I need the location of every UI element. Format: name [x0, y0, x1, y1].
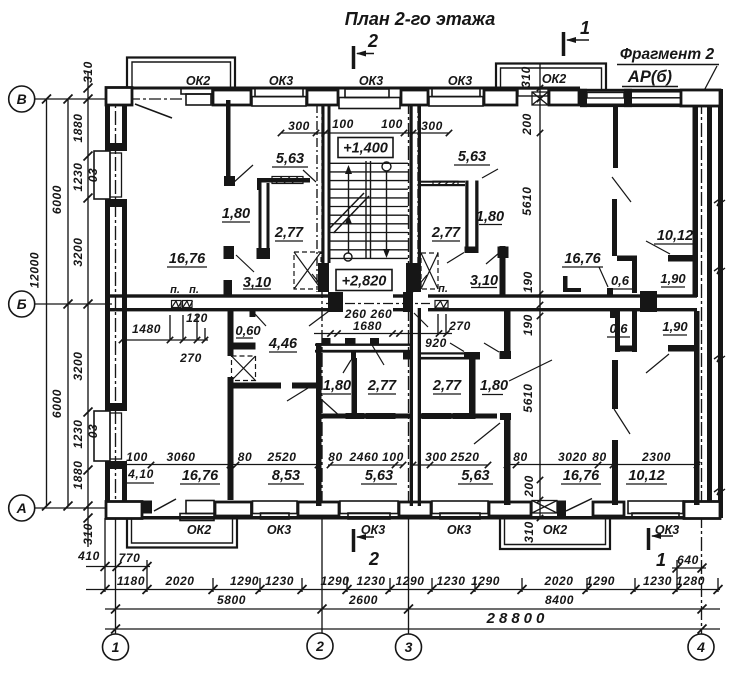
svg-text:Б: Б [17, 296, 27, 312]
svg-text:5610: 5610 [521, 383, 535, 412]
svg-text:0,60: 0,60 [235, 323, 261, 338]
svg-text:1230: 1230 [71, 419, 85, 448]
svg-text:4,46: 4,46 [268, 336, 298, 352]
svg-text:190: 190 [521, 271, 535, 293]
svg-text:1230: 1230 [356, 574, 385, 588]
svg-text:16,76: 16,76 [563, 468, 600, 484]
svg-text:2,77: 2,77 [432, 378, 462, 394]
svg-text:5610: 5610 [520, 186, 534, 215]
svg-text:ОК2: ОК2 [187, 523, 211, 537]
svg-text:1290: 1290 [586, 574, 615, 588]
svg-text:6000: 6000 [50, 185, 64, 214]
svg-text:100: 100 [381, 117, 403, 131]
svg-text:03: 03 [86, 424, 100, 439]
svg-text:ОК3: ОК3 [267, 523, 291, 537]
svg-text:2,77: 2,77 [431, 225, 461, 241]
svg-text:ОК3: ОК3 [447, 523, 471, 537]
svg-text:1480: 1480 [132, 322, 161, 336]
svg-text:1: 1 [112, 639, 120, 655]
svg-text:300: 300 [425, 450, 447, 464]
svg-text:1: 1 [656, 550, 666, 570]
svg-text:2600: 2600 [348, 593, 378, 607]
svg-text:1,90: 1,90 [662, 319, 688, 334]
svg-text:12000: 12000 [28, 252, 42, 288]
svg-text:80: 80 [328, 450, 343, 464]
svg-text:100: 100 [332, 117, 354, 131]
svg-text:100: 100 [126, 450, 148, 464]
svg-text:16,76: 16,76 [169, 251, 206, 267]
svg-text:АР(б): АР(б) [627, 68, 673, 86]
svg-text:310: 310 [81, 61, 95, 83]
svg-text:8400: 8400 [545, 593, 574, 607]
svg-text:16,76: 16,76 [564, 251, 601, 267]
svg-text:3,10: 3,10 [470, 273, 498, 289]
svg-text:1,90: 1,90 [660, 271, 686, 286]
svg-text:100: 100 [382, 450, 404, 464]
svg-text:п.: п. [438, 283, 448, 295]
svg-text:1,80: 1,80 [480, 378, 508, 394]
svg-text:16,76: 16,76 [182, 468, 219, 484]
svg-text:80: 80 [592, 450, 607, 464]
svg-text:1230: 1230 [265, 574, 294, 588]
svg-text:770: 770 [119, 551, 141, 565]
svg-text:5,63: 5,63 [365, 468, 393, 484]
svg-text:В: В [17, 91, 27, 107]
svg-text:0,6: 0,6 [611, 273, 630, 288]
svg-text:10,12: 10,12 [628, 468, 664, 484]
svg-text:03: 03 [86, 168, 100, 183]
svg-text:1880: 1880 [71, 113, 85, 142]
svg-text:1,80: 1,80 [222, 206, 250, 222]
svg-text:+1,400: +1,400 [343, 141, 388, 157]
svg-text:1880: 1880 [71, 460, 85, 489]
svg-text:План 2-го этажа: План 2-го этажа [345, 9, 496, 29]
svg-text:ОК2: ОК2 [542, 72, 566, 86]
svg-text:1290: 1290 [230, 574, 259, 588]
svg-text:ОК2: ОК2 [543, 523, 567, 537]
svg-text:10,12: 10,12 [657, 228, 693, 244]
svg-text:80: 80 [513, 450, 528, 464]
svg-text:3020: 3020 [558, 450, 587, 464]
svg-text:4: 4 [696, 639, 705, 655]
svg-text:2520: 2520 [266, 450, 296, 464]
svg-text:1,80: 1,80 [476, 209, 504, 225]
svg-text:2,77: 2,77 [367, 378, 397, 394]
svg-text:200: 200 [520, 113, 534, 136]
svg-text:3200: 3200 [71, 237, 85, 266]
svg-text:2: 2 [315, 638, 324, 654]
svg-text:1: 1 [580, 18, 590, 38]
svg-text:5,63: 5,63 [458, 149, 486, 165]
svg-text:2520: 2520 [449, 450, 479, 464]
svg-text:300: 300 [288, 119, 310, 133]
svg-text:28800: 28800 [486, 610, 549, 627]
svg-text:Фрагмент 2: Фрагмент 2 [620, 46, 715, 63]
svg-text:8,53: 8,53 [272, 468, 300, 484]
svg-text:1230: 1230 [643, 574, 672, 588]
svg-text:ОК3: ОК3 [448, 74, 472, 88]
svg-text:5,63: 5,63 [461, 468, 489, 484]
svg-text:А: А [16, 500, 27, 516]
svg-text:2020: 2020 [164, 574, 194, 588]
svg-text:5,63: 5,63 [276, 151, 304, 167]
svg-text:1,80: 1,80 [323, 378, 351, 394]
svg-text:270: 270 [448, 319, 471, 333]
svg-text:ОК3: ОК3 [359, 74, 383, 88]
svg-text:1680: 1680 [353, 319, 382, 333]
svg-text:4,10: 4,10 [127, 467, 154, 481]
svg-text:п.: п. [170, 284, 180, 296]
svg-text:2: 2 [367, 31, 378, 51]
svg-text:1280: 1280 [676, 574, 705, 588]
svg-text:1290: 1290 [320, 574, 349, 588]
svg-text:310: 310 [81, 523, 95, 545]
svg-text:3200: 3200 [71, 351, 85, 380]
svg-text:п.: п. [189, 284, 199, 296]
svg-text:2460: 2460 [348, 450, 378, 464]
svg-text:0,6: 0,6 [609, 321, 628, 336]
svg-text:200: 200 [522, 475, 536, 498]
svg-text:ОК3: ОК3 [269, 74, 293, 88]
svg-text:ОК3: ОК3 [361, 523, 385, 537]
svg-text:1290: 1290 [395, 574, 424, 588]
svg-text:310: 310 [519, 66, 533, 88]
svg-text:ОК3: ОК3 [655, 523, 679, 537]
svg-text:410: 410 [77, 549, 100, 563]
svg-text:920: 920 [425, 336, 447, 350]
svg-text:6000: 6000 [50, 389, 64, 418]
svg-text:3060: 3060 [166, 450, 195, 464]
svg-text:ОК2: ОК2 [186, 74, 210, 88]
svg-text:640: 640 [677, 553, 699, 567]
svg-text:2300: 2300 [641, 450, 671, 464]
svg-text:+2,820: +2,820 [342, 274, 387, 290]
svg-text:3: 3 [405, 639, 413, 655]
svg-text:2: 2 [368, 549, 379, 569]
svg-text:300: 300 [421, 119, 443, 133]
svg-text:120: 120 [186, 311, 208, 325]
svg-text:1180: 1180 [117, 574, 145, 588]
svg-text:80: 80 [238, 450, 253, 464]
svg-text:5800: 5800 [217, 593, 246, 607]
svg-text:270: 270 [179, 351, 202, 365]
svg-text:2,77: 2,77 [274, 225, 304, 241]
svg-text:1230: 1230 [436, 574, 465, 588]
svg-text:1230: 1230 [71, 162, 85, 191]
svg-text:1290: 1290 [471, 574, 500, 588]
svg-text:310: 310 [522, 521, 536, 543]
svg-text:2020: 2020 [543, 574, 573, 588]
svg-text:190: 190 [521, 314, 535, 336]
